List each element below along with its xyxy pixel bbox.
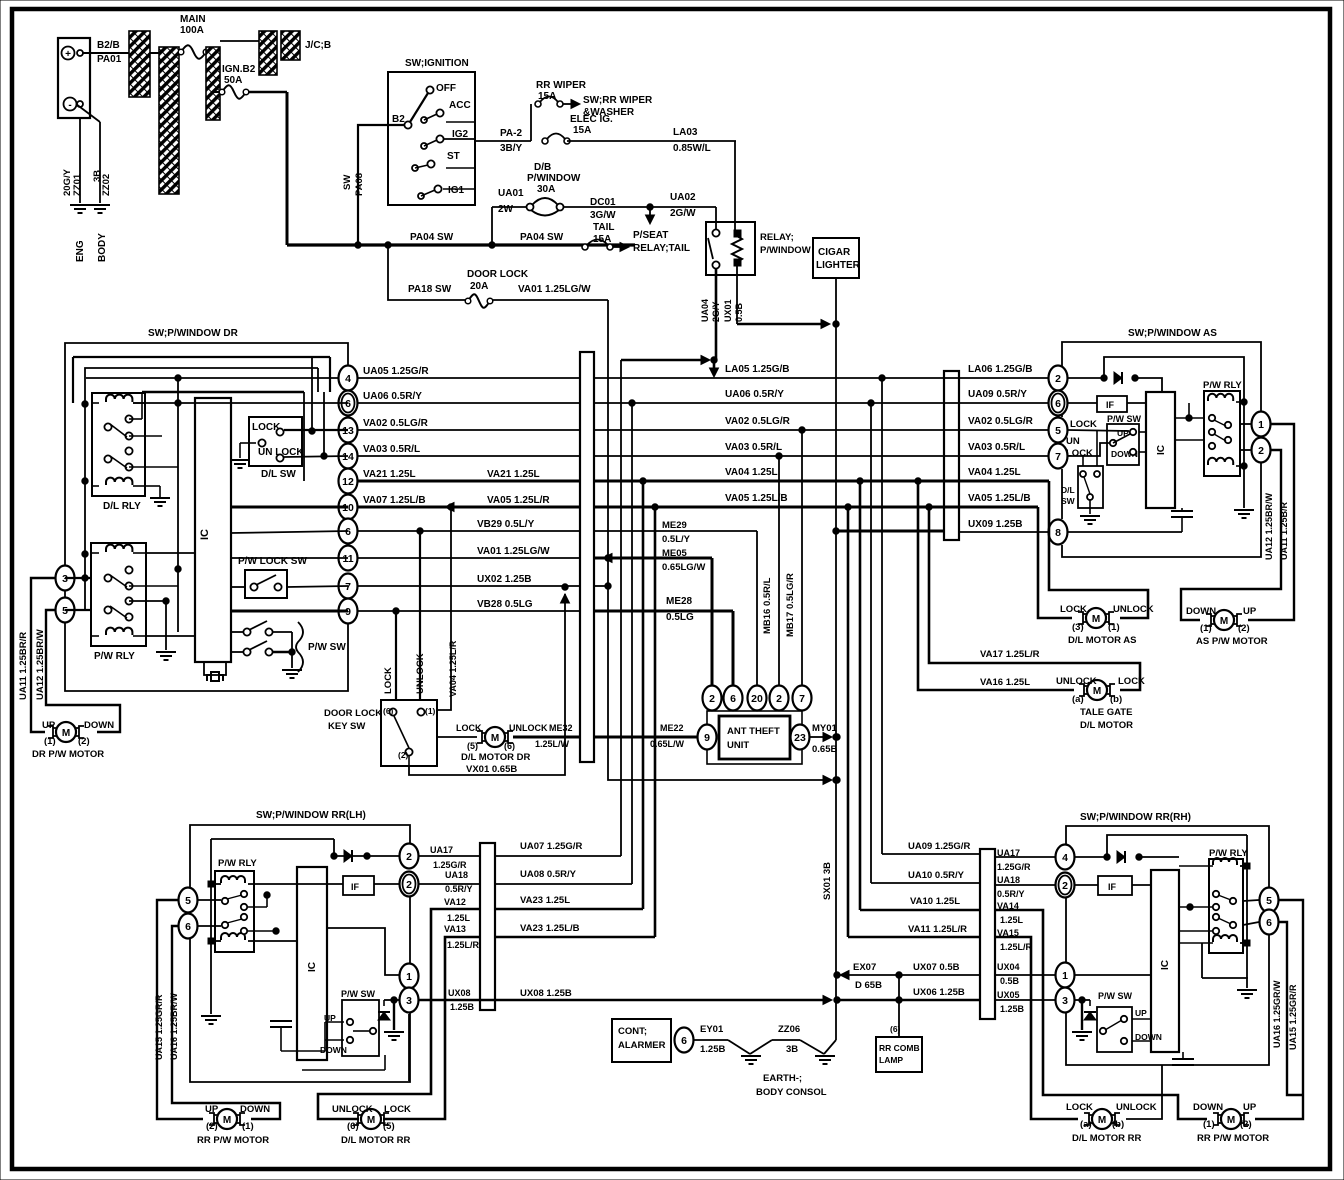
svg-text:EY01: EY01 bbox=[700, 1024, 724, 1035]
svg-text:20G/Y: 20G/Y bbox=[62, 168, 73, 196]
svg-text:UA18: UA18 bbox=[997, 875, 1020, 885]
svg-text:ELEC IG.: ELEC IG. bbox=[570, 114, 613, 125]
svg-text:0.5LG: 0.5LG bbox=[666, 612, 694, 623]
svg-text:6: 6 bbox=[1055, 398, 1061, 410]
svg-text:0.85W/L: 0.85W/L bbox=[673, 143, 711, 154]
svg-text:VA04 1.25L: VA04 1.25L bbox=[725, 467, 778, 478]
svg-text:SX01 3B: SX01 3B bbox=[822, 862, 833, 900]
svg-text:(a): (a) bbox=[1080, 1119, 1092, 1130]
svg-text:IC: IC bbox=[1156, 445, 1167, 455]
svg-text:B2: B2 bbox=[392, 114, 405, 125]
svg-text:VB29 0.5L/Y: VB29 0.5L/Y bbox=[477, 519, 535, 530]
svg-text:UA16 1.25BR/W: UA16 1.25BR/W bbox=[169, 992, 179, 1060]
svg-text:UA12 1.25BR/W: UA12 1.25BR/W bbox=[1264, 492, 1274, 560]
svg-text:UA15 1.25GR/R: UA15 1.25GR/R bbox=[154, 994, 164, 1060]
svg-text:UA02: UA02 bbox=[670, 192, 696, 203]
svg-text:IF: IF bbox=[1108, 882, 1117, 892]
svg-text:DR P/W MOTOR: DR P/W MOTOR bbox=[32, 749, 104, 760]
svg-text:ME29: ME29 bbox=[662, 520, 687, 531]
svg-text:(1): (1) bbox=[425, 706, 436, 716]
svg-text:12: 12 bbox=[342, 476, 354, 488]
svg-text:P/WINDOW: P/WINDOW bbox=[527, 173, 581, 184]
svg-text:IG1: IG1 bbox=[448, 185, 465, 196]
svg-text:D/L MOTOR DR: D/L MOTOR DR bbox=[461, 752, 530, 763]
svg-text:VX01 0.65B: VX01 0.65B bbox=[466, 764, 517, 775]
svg-text:UX05: UX05 bbox=[997, 990, 1020, 1000]
svg-text:ME28: ME28 bbox=[666, 596, 693, 607]
svg-text:RR COMB: RR COMB bbox=[879, 1043, 920, 1053]
svg-text:VA05 1.25L/B: VA05 1.25L/B bbox=[968, 493, 1031, 504]
svg-text:ACC: ACC bbox=[449, 100, 471, 111]
svg-text:ALARMER: ALARMER bbox=[618, 1040, 666, 1051]
svg-text:PA04 SW: PA04 SW bbox=[410, 232, 454, 243]
svg-text:(1): (1) bbox=[1200, 623, 1212, 634]
svg-text:1.25B: 1.25B bbox=[700, 1044, 725, 1055]
svg-text:MB17 0.5LG/R: MB17 0.5LG/R bbox=[785, 573, 796, 637]
svg-text:P/W SW: P/W SW bbox=[1107, 414, 1142, 424]
svg-text:IC: IC bbox=[199, 529, 211, 540]
svg-text:4: 4 bbox=[1062, 852, 1068, 864]
svg-text:ENG: ENG bbox=[75, 240, 86, 262]
svg-text:(6): (6) bbox=[890, 1024, 901, 1034]
svg-text:DOWN: DOWN bbox=[1193, 1102, 1223, 1113]
svg-text:14: 14 bbox=[342, 451, 354, 463]
svg-text:1.25B: 1.25B bbox=[1000, 1004, 1025, 1014]
svg-text:UX02 1.25B: UX02 1.25B bbox=[477, 574, 531, 585]
svg-text:LOCK: LOCK bbox=[1118, 676, 1145, 687]
svg-text:UP: UP bbox=[1243, 606, 1257, 617]
svg-text:D/L MOTOR RR: D/L MOTOR RR bbox=[1072, 1133, 1141, 1144]
svg-text:(b): (b) bbox=[1112, 1119, 1124, 1130]
svg-text:UA09 1.25G/R: UA09 1.25G/R bbox=[908, 841, 970, 852]
svg-text:(6): (6) bbox=[504, 741, 515, 751]
svg-text:UP: UP bbox=[1243, 1102, 1257, 1113]
svg-text:UNLOCK: UNLOCK bbox=[415, 653, 426, 694]
svg-text:1: 1 bbox=[406, 971, 412, 983]
svg-text:6: 6 bbox=[345, 398, 351, 410]
svg-text:VA03 0.5R/L: VA03 0.5R/L bbox=[968, 442, 1025, 453]
svg-text:UP: UP bbox=[1117, 428, 1129, 438]
svg-text:DOOR LOCK: DOOR LOCK bbox=[467, 269, 529, 280]
svg-text:1: 1 bbox=[1258, 419, 1264, 431]
svg-text:0.5B: 0.5B bbox=[734, 302, 744, 322]
svg-text:(6): (6) bbox=[347, 1121, 359, 1132]
svg-text:23: 23 bbox=[794, 732, 806, 744]
svg-text:IC: IC bbox=[307, 962, 318, 972]
svg-text:UP: UP bbox=[205, 1104, 219, 1115]
svg-text:DOWN: DOWN bbox=[320, 1045, 347, 1055]
svg-text:BODY: BODY bbox=[97, 233, 108, 262]
svg-text:P/W RLY: P/W RLY bbox=[1209, 848, 1248, 859]
svg-text:UN: UN bbox=[1066, 436, 1080, 447]
svg-text:D/L MOTOR: D/L MOTOR bbox=[1080, 720, 1133, 731]
svg-text:D 65B: D 65B bbox=[855, 980, 882, 991]
svg-text:PA01: PA01 bbox=[97, 54, 122, 65]
svg-text:DC01: DC01 bbox=[590, 197, 616, 208]
svg-text:ME22: ME22 bbox=[660, 723, 684, 733]
svg-text:2G/Y: 2G/Y bbox=[711, 301, 721, 322]
svg-text:UA10 0.5R/Y: UA10 0.5R/Y bbox=[908, 870, 965, 881]
svg-text:UA17: UA17 bbox=[430, 845, 453, 855]
svg-text:LA03: LA03 bbox=[673, 127, 698, 138]
svg-text:UX04: UX04 bbox=[997, 962, 1020, 972]
svg-text:UX07 0.5B: UX07 0.5B bbox=[913, 962, 960, 973]
svg-text:3B: 3B bbox=[786, 1044, 798, 1055]
svg-text:11: 11 bbox=[342, 553, 353, 565]
svg-text:8: 8 bbox=[1055, 527, 1061, 539]
svg-text:VA21 1.25L: VA21 1.25L bbox=[363, 469, 416, 480]
svg-text:MAIN: MAIN bbox=[180, 14, 206, 25]
svg-text:LAMP: LAMP bbox=[879, 1055, 903, 1065]
svg-text:LA06 1.25G/B: LA06 1.25G/B bbox=[968, 364, 1032, 375]
svg-text:SW;P/WINDOW DR: SW;P/WINDOW DR bbox=[148, 328, 239, 339]
svg-text:(1): (1) bbox=[1108, 622, 1120, 633]
svg-text:BODY CONSOL: BODY CONSOL bbox=[756, 1087, 827, 1098]
svg-text:RELAY;: RELAY; bbox=[760, 232, 794, 243]
svg-text:ME05: ME05 bbox=[662, 548, 688, 559]
svg-text:7: 7 bbox=[799, 693, 805, 705]
svg-text:IGN.B2: IGN.B2 bbox=[222, 64, 256, 75]
svg-text:SW;RR WIPER: SW;RR WIPER bbox=[583, 95, 653, 106]
svg-text:M: M bbox=[62, 728, 70, 739]
svg-text:D/L MOTOR AS: D/L MOTOR AS bbox=[1068, 635, 1136, 646]
svg-text:ZZ02: ZZ02 bbox=[101, 174, 112, 196]
svg-text:(5): (5) bbox=[467, 741, 478, 751]
svg-text:2: 2 bbox=[406, 851, 412, 863]
svg-text:VA02 0.5LG/R: VA02 0.5LG/R bbox=[968, 416, 1034, 427]
svg-text:7: 7 bbox=[1055, 451, 1061, 463]
svg-text:1.25L: 1.25L bbox=[1000, 915, 1024, 925]
svg-text:M: M bbox=[491, 733, 499, 744]
svg-text:UA06 0.5R/Y: UA06 0.5R/Y bbox=[363, 391, 422, 402]
svg-text:5: 5 bbox=[1266, 895, 1272, 907]
svg-text:UA07 1.25G/R: UA07 1.25G/R bbox=[520, 841, 582, 852]
svg-text:4: 4 bbox=[345, 373, 351, 385]
svg-text:LOCK: LOCK bbox=[1070, 419, 1097, 430]
svg-text:UA06 0.5R/Y: UA06 0.5R/Y bbox=[725, 389, 784, 400]
svg-text:P/W RLY: P/W RLY bbox=[94, 651, 135, 662]
svg-text:UP: UP bbox=[1135, 1008, 1147, 1018]
svg-text:IF: IF bbox=[1106, 400, 1115, 410]
svg-text:6: 6 bbox=[185, 921, 191, 933]
svg-text:UX01: UX01 bbox=[723, 299, 733, 322]
svg-text:VA04 1.25L/R: VA04 1.25L/R bbox=[448, 640, 458, 697]
svg-text:EARTH-;: EARTH-; bbox=[763, 1073, 802, 1084]
svg-text:M: M bbox=[1093, 686, 1101, 697]
svg-text:D/L: D/L bbox=[1061, 485, 1075, 495]
svg-text:30A: 30A bbox=[537, 184, 555, 195]
svg-text:0.5R/Y: 0.5R/Y bbox=[997, 889, 1025, 899]
svg-text:VA02 0.5LG/R: VA02 0.5LG/R bbox=[363, 418, 429, 429]
svg-text:20: 20 bbox=[751, 693, 763, 705]
svg-text:VA05 1.25L/R: VA05 1.25L/R bbox=[487, 495, 550, 506]
svg-text:(6): (6) bbox=[383, 706, 394, 716]
svg-text:VA03 0.5R/L: VA03 0.5R/L bbox=[725, 442, 782, 453]
svg-text:VB28 0.5LG: VB28 0.5LG bbox=[477, 599, 533, 610]
svg-text:VA10 1.25L: VA10 1.25L bbox=[910, 896, 960, 907]
svg-text:SW;P/WINDOW RR(RH): SW;P/WINDOW RR(RH) bbox=[1080, 812, 1191, 823]
svg-text:1.25G/R: 1.25G/R bbox=[997, 862, 1031, 872]
svg-text:UA09 0.5R/Y: UA09 0.5R/Y bbox=[968, 389, 1027, 400]
svg-text:KEY SW: KEY SW bbox=[328, 721, 365, 732]
svg-text:SW: SW bbox=[342, 175, 353, 190]
svg-text:EX07: EX07 bbox=[853, 962, 876, 973]
svg-text:AS P/W MOTOR: AS P/W MOTOR bbox=[1196, 636, 1268, 647]
svg-text:(2): (2) bbox=[206, 1121, 218, 1132]
svg-text:1.25L/W: 1.25L/W bbox=[535, 739, 570, 749]
svg-text:VA04 1.25L: VA04 1.25L bbox=[968, 467, 1021, 478]
svg-text:LOCK: LOCK bbox=[383, 667, 394, 694]
svg-text:M: M bbox=[1227, 1115, 1235, 1126]
svg-text:J/C;B: J/C;B bbox=[305, 40, 331, 51]
svg-text:UA05 1.25G/R: UA05 1.25G/R bbox=[363, 366, 429, 377]
svg-text:2: 2 bbox=[1062, 880, 1068, 892]
svg-text:LOCK: LOCK bbox=[1060, 604, 1087, 615]
svg-text:P/W SW: P/W SW bbox=[308, 642, 346, 653]
svg-text:MB16 0.5R/L: MB16 0.5R/L bbox=[762, 577, 773, 634]
svg-text:RELAY;TAIL: RELAY;TAIL bbox=[633, 243, 690, 254]
svg-text:UA11 1.25B/R: UA11 1.25B/R bbox=[1279, 501, 1289, 560]
svg-text:0.5B: 0.5B bbox=[1000, 976, 1020, 986]
svg-text:1.25L/R: 1.25L/R bbox=[1000, 942, 1033, 952]
svg-text:DOOR LOCK: DOOR LOCK bbox=[324, 708, 382, 719]
svg-text:VA03 0.5R/L: VA03 0.5R/L bbox=[363, 444, 420, 455]
svg-text:(1): (1) bbox=[44, 736, 56, 747]
svg-text:UX08 1.25B: UX08 1.25B bbox=[520, 988, 572, 999]
svg-text:(2): (2) bbox=[78, 736, 90, 747]
svg-text:1: 1 bbox=[1062, 970, 1068, 982]
svg-text:UP: UP bbox=[42, 720, 56, 731]
svg-text:3G/W: 3G/W bbox=[590, 210, 616, 221]
svg-text:VA13: VA13 bbox=[444, 924, 466, 934]
svg-text:CIGAR: CIGAR bbox=[818, 247, 851, 258]
svg-text:1.25L: 1.25L bbox=[447, 913, 471, 923]
svg-text:LOCK: LOCK bbox=[456, 723, 482, 733]
svg-text:LIGHTER: LIGHTER bbox=[816, 260, 861, 271]
svg-text:RR WIPER: RR WIPER bbox=[536, 80, 587, 91]
svg-text:OFF: OFF bbox=[436, 83, 456, 94]
svg-text:UA16 1.25GR/W: UA16 1.25GR/W bbox=[1272, 980, 1282, 1048]
svg-text:P/W RLY: P/W RLY bbox=[218, 858, 257, 869]
svg-text:VA21 1.25L: VA21 1.25L bbox=[487, 469, 540, 480]
svg-text:DOWN: DOWN bbox=[240, 1104, 270, 1115]
svg-text:CONT;: CONT; bbox=[618, 1026, 647, 1037]
svg-text:2: 2 bbox=[709, 693, 715, 705]
svg-text:VA01 1.25LG/W: VA01 1.25LG/W bbox=[518, 284, 591, 295]
svg-text:6: 6 bbox=[730, 693, 736, 705]
svg-text:1.25L/R: 1.25L/R bbox=[447, 940, 480, 950]
svg-text:M: M bbox=[1220, 616, 1228, 627]
svg-text:0.65LG/W: 0.65LG/W bbox=[662, 562, 705, 573]
svg-text:M: M bbox=[1092, 614, 1100, 625]
svg-text:D/L RLY: D/L RLY bbox=[103, 501, 141, 512]
svg-text:2W: 2W bbox=[498, 204, 514, 215]
svg-text:PA-2: PA-2 bbox=[500, 128, 522, 139]
svg-text:6: 6 bbox=[1266, 917, 1272, 929]
svg-text:RR P/W MOTOR: RR P/W MOTOR bbox=[1197, 1133, 1269, 1144]
svg-text:VA16 1.25L: VA16 1.25L bbox=[980, 677, 1030, 688]
svg-text:TAIL: TAIL bbox=[593, 222, 614, 233]
svg-text:PA18 SW: PA18 SW bbox=[408, 284, 452, 295]
svg-text:PA08: PA08 bbox=[354, 173, 365, 196]
svg-text:RR P/W MOTOR: RR P/W MOTOR bbox=[197, 1135, 269, 1146]
svg-text:2: 2 bbox=[776, 693, 782, 705]
svg-text:15A: 15A bbox=[573, 125, 591, 136]
svg-text:PA04 SW: PA04 SW bbox=[520, 232, 564, 243]
svg-text:VA17 1.25L/R: VA17 1.25L/R bbox=[980, 649, 1040, 660]
svg-text:0.65L/W: 0.65L/W bbox=[650, 739, 685, 749]
svg-text:(2): (2) bbox=[398, 750, 409, 760]
svg-text:UNLOCK: UNLOCK bbox=[509, 723, 548, 733]
svg-text:1.25B: 1.25B bbox=[450, 1002, 475, 1012]
svg-text:P/W SW: P/W SW bbox=[341, 989, 376, 999]
svg-text:+: + bbox=[65, 49, 71, 60]
svg-text:VA07 1.25L/B: VA07 1.25L/B bbox=[363, 495, 426, 506]
svg-text:ZZ01: ZZ01 bbox=[72, 173, 83, 196]
svg-text:2: 2 bbox=[1258, 445, 1264, 457]
svg-text:UA01: UA01 bbox=[498, 188, 524, 199]
svg-text:D/L MOTOR RR: D/L MOTOR RR bbox=[341, 1135, 410, 1146]
svg-text:UA12 1.25BR/W: UA12 1.25BR/W bbox=[35, 629, 46, 700]
svg-text:D/B: D/B bbox=[534, 162, 551, 173]
svg-text:LOCK: LOCK bbox=[1066, 448, 1093, 459]
svg-text:P/SEAT: P/SEAT bbox=[633, 230, 668, 241]
svg-text:P/W SW: P/W SW bbox=[1098, 991, 1133, 1001]
svg-text:6: 6 bbox=[681, 1035, 687, 1047]
svg-text:UX08: UX08 bbox=[448, 988, 471, 998]
svg-text:MY01: MY01 bbox=[812, 723, 838, 734]
svg-text:M: M bbox=[1098, 1115, 1106, 1126]
svg-text:VA12: VA12 bbox=[444, 897, 466, 907]
svg-text:M: M bbox=[223, 1115, 231, 1126]
svg-text:2G/W: 2G/W bbox=[670, 208, 696, 219]
svg-text:100A: 100A bbox=[180, 25, 204, 36]
svg-text:UNLOCK: UNLOCK bbox=[1056, 676, 1097, 687]
svg-text:LOCK: LOCK bbox=[1066, 1102, 1093, 1113]
svg-text:3: 3 bbox=[406, 995, 412, 1007]
svg-text:SW;IGNITION: SW;IGNITION bbox=[405, 58, 469, 69]
svg-text:UA11 1.25BR/R: UA11 1.25BR/R bbox=[18, 632, 29, 700]
svg-text:D/L SW: D/L SW bbox=[261, 469, 296, 480]
svg-text:VA01 1.25LG/W: VA01 1.25LG/W bbox=[477, 546, 550, 557]
svg-text:(1): (1) bbox=[242, 1121, 254, 1132]
svg-text:ME32: ME32 bbox=[549, 723, 573, 733]
svg-text:LOCK: LOCK bbox=[384, 1104, 411, 1115]
svg-text:UNLOCK: UNLOCK bbox=[1116, 1102, 1157, 1113]
svg-text:3: 3 bbox=[1062, 995, 1068, 1007]
svg-text:DOWN: DOWN bbox=[84, 720, 114, 731]
svg-text:UA08 0.5R/Y: UA08 0.5R/Y bbox=[520, 869, 577, 880]
svg-text:2: 2 bbox=[406, 879, 412, 891]
svg-text:UNLOCK: UNLOCK bbox=[332, 1104, 373, 1115]
svg-text:UX06 1.25B: UX06 1.25B bbox=[913, 987, 965, 998]
svg-text:UA18: UA18 bbox=[445, 870, 468, 880]
svg-text:UA04: UA04 bbox=[700, 299, 710, 322]
svg-text:P/WINDOW: P/WINDOW bbox=[760, 245, 811, 256]
svg-text:UA15 1.25GR/R: UA15 1.25GR/R bbox=[1288, 984, 1298, 1050]
svg-text:SW: SW bbox=[1061, 496, 1076, 506]
svg-text:IF: IF bbox=[351, 882, 360, 892]
svg-text:(2): (2) bbox=[1240, 1119, 1252, 1130]
svg-text:ST: ST bbox=[447, 151, 460, 162]
svg-text:UX09 1.25B: UX09 1.25B bbox=[968, 519, 1022, 530]
svg-text:(b): (b) bbox=[1110, 694, 1122, 705]
svg-text:TALE GATE: TALE GATE bbox=[1080, 707, 1132, 718]
svg-text:P/W RLY: P/W RLY bbox=[1203, 380, 1242, 391]
svg-text:(2): (2) bbox=[1238, 623, 1250, 634]
svg-text:IC: IC bbox=[1160, 960, 1171, 970]
svg-text:5: 5 bbox=[1055, 425, 1061, 437]
svg-text:B2/B: B2/B bbox=[97, 40, 120, 51]
svg-text:VA11 1.25L/R: VA11 1.25L/R bbox=[908, 924, 967, 935]
svg-text:UNIT: UNIT bbox=[727, 740, 749, 751]
svg-text:2: 2 bbox=[1055, 373, 1061, 385]
svg-text:VA23 1.25L/B: VA23 1.25L/B bbox=[520, 923, 580, 934]
svg-text:M: M bbox=[367, 1115, 375, 1126]
svg-text:ZZ06: ZZ06 bbox=[778, 1024, 800, 1035]
svg-text:0.65B: 0.65B bbox=[812, 744, 837, 755]
svg-text:-: - bbox=[68, 100, 71, 111]
svg-text:5: 5 bbox=[185, 895, 191, 907]
svg-text:20A: 20A bbox=[470, 281, 488, 292]
svg-text:0.5L/Y: 0.5L/Y bbox=[662, 534, 691, 545]
svg-text:ANT THEFT: ANT THEFT bbox=[727, 726, 780, 737]
svg-text:SW;P/WINDOW AS: SW;P/WINDOW AS bbox=[1128, 328, 1217, 339]
svg-text:9: 9 bbox=[704, 732, 710, 744]
svg-text:(3): (3) bbox=[1072, 622, 1084, 633]
svg-text:3B/Y: 3B/Y bbox=[500, 143, 523, 154]
svg-text:7: 7 bbox=[345, 581, 351, 593]
svg-text:0.5R/Y: 0.5R/Y bbox=[445, 884, 473, 894]
svg-text:50A: 50A bbox=[224, 75, 242, 86]
svg-text:(a): (a) bbox=[1072, 694, 1084, 705]
svg-text:1.25G/R: 1.25G/R bbox=[433, 860, 467, 870]
svg-text:LA05 1.25G/B: LA05 1.25G/B bbox=[725, 364, 789, 375]
svg-text:DOWN: DOWN bbox=[1186, 606, 1216, 617]
svg-text:VA23 1.25L: VA23 1.25L bbox=[520, 895, 570, 906]
svg-text:SW;P/WINDOW RR(LH): SW;P/WINDOW RR(LH) bbox=[256, 810, 366, 821]
svg-text:UNLOCK: UNLOCK bbox=[1113, 604, 1154, 615]
svg-text:VA02 0.5LG/R: VA02 0.5LG/R bbox=[725, 416, 791, 427]
svg-text:6: 6 bbox=[345, 526, 351, 538]
svg-text:(1): (1) bbox=[1203, 1119, 1215, 1130]
svg-text:(5): (5) bbox=[383, 1121, 395, 1132]
